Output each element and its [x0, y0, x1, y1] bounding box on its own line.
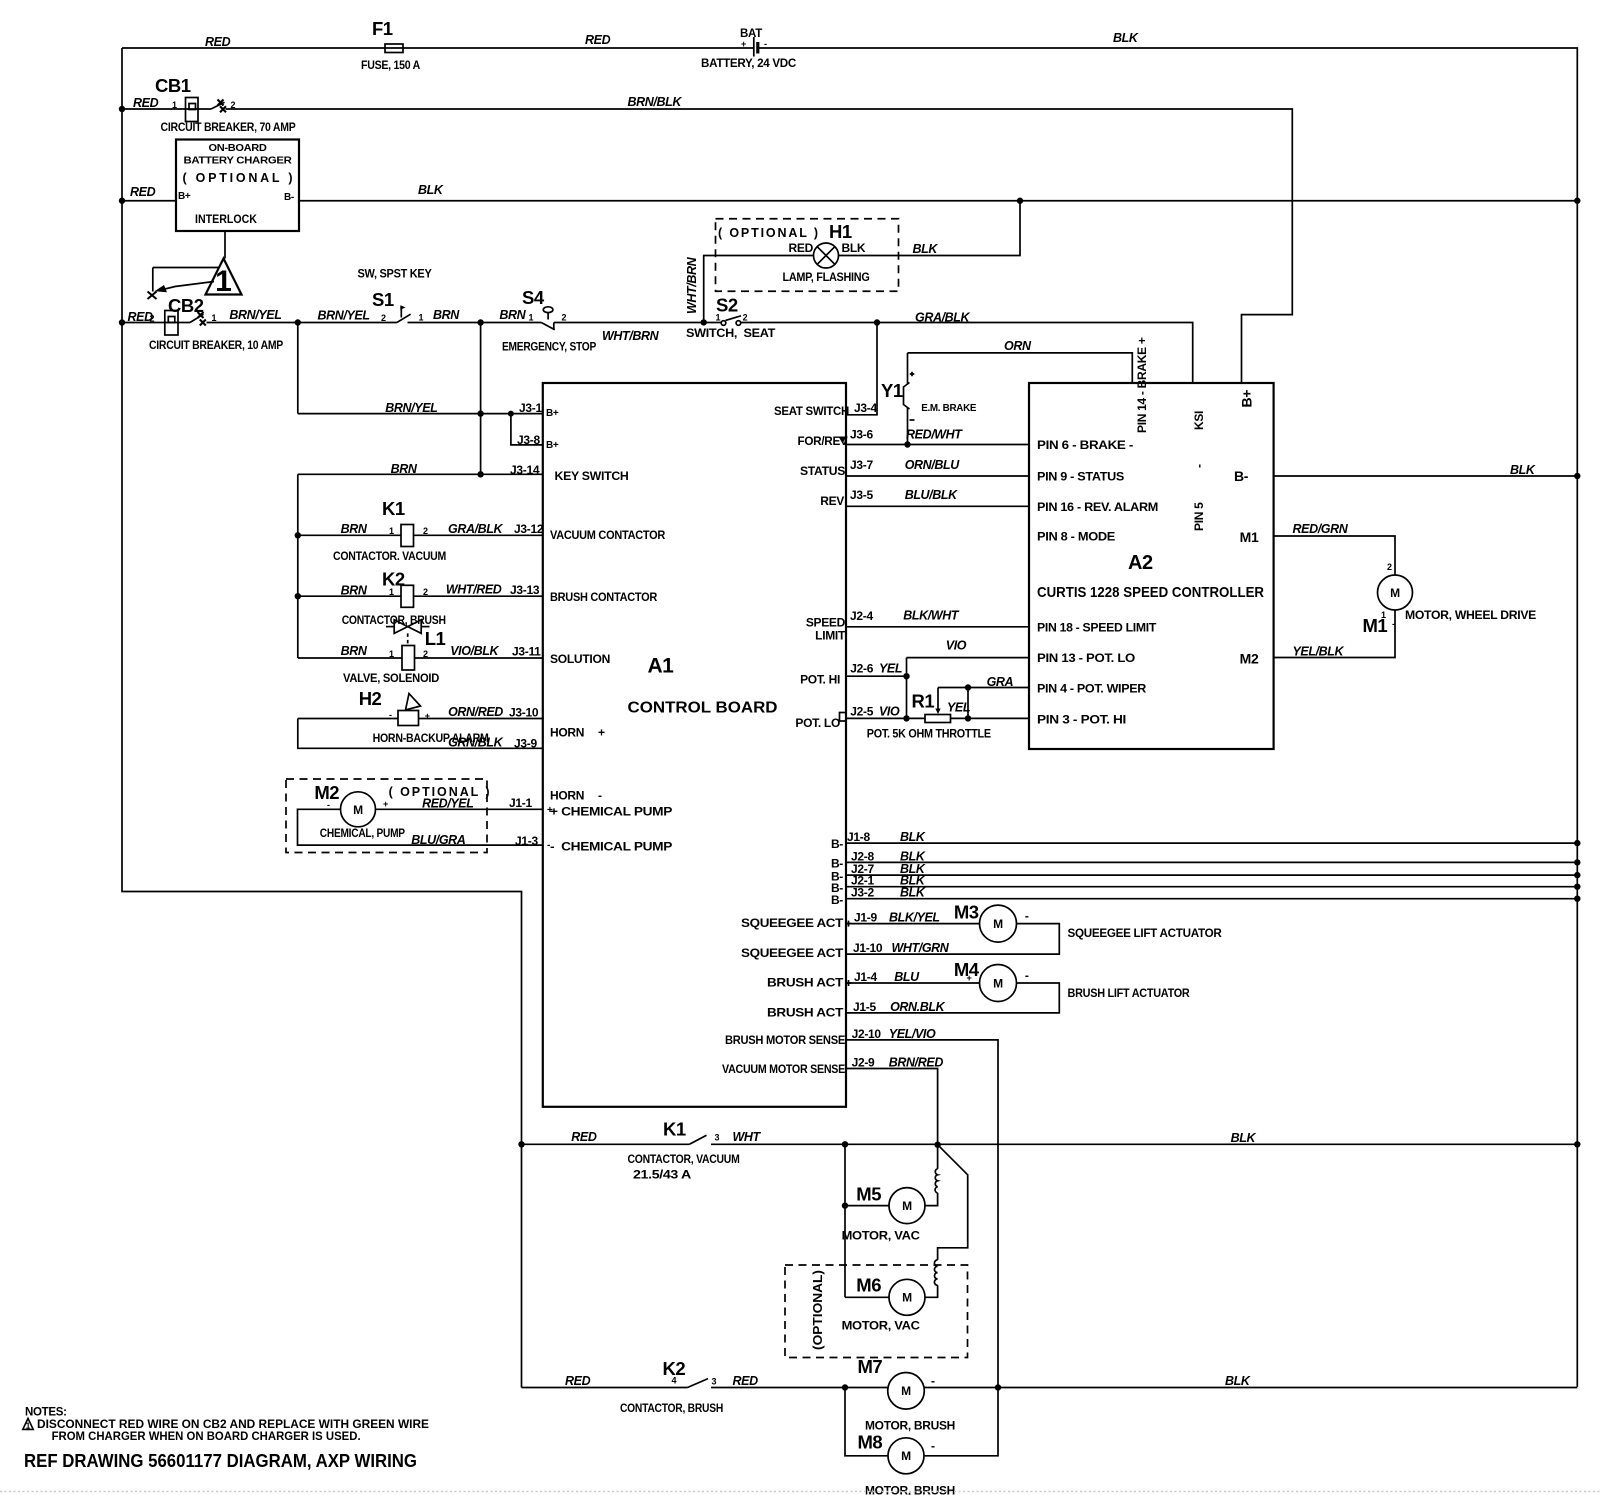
svg-text:VIO: VIO — [879, 705, 900, 719]
svg-text:A2: A2 — [1128, 552, 1153, 574]
switch S1 key SPST — [358, 267, 432, 324]
svg-text:BRN/YEL: BRN/YEL — [318, 309, 370, 323]
node B- right edge — [1574, 473, 1580, 479]
svg-text:NOTES:: NOTES: — [25, 1407, 67, 1419]
note 1 warning triangle with leader — [148, 259, 242, 300]
wire ORN brake plus — [908, 339, 1133, 383]
svg-text:1: 1 — [1381, 610, 1386, 620]
svg-text:- CHEMICAL PUMP: - CHEMICAL PUMP — [550, 840, 672, 854]
label J3-1 — [519, 401, 559, 419]
svg-text:J2-9: J2-9 — [852, 1056, 875, 1070]
wire vac thermal link — [938, 1145, 968, 1260]
svg-text:FROM CHARGER WHEN ON BOARD CHA: FROM CHARGER WHEN ON BOARD CHARGER IS US… — [52, 1431, 361, 1443]
svg-text:-: - — [1025, 909, 1029, 923]
svg-text:FUSE, 150 A: FUSE, 150 A — [361, 58, 421, 72]
svg-text:BLK: BLK — [900, 830, 926, 844]
svg-text:J3-13: J3-13 — [510, 583, 540, 597]
svg-text:K1: K1 — [382, 498, 405, 519]
svg-text:J3-7: J3-7 — [850, 458, 873, 472]
svg-text:BRN: BRN — [341, 522, 368, 536]
svg-text:BLK/WHT: BLK/WHT — [903, 609, 960, 623]
svg-text:-: - — [327, 800, 330, 810]
svg-text:YEL: YEL — [947, 701, 970, 715]
svg-text:( OPTIONAL ): ( OPTIONAL ) — [183, 171, 293, 185]
svg-text:BRN: BRN — [433, 308, 460, 322]
wire GRA/BLK S2 to controller KSI — [741, 311, 1193, 384]
svg-text:1: 1 — [212, 313, 217, 323]
svg-text:M8: M8 — [858, 1432, 883, 1453]
svg-text:BRUSH ACT: BRUSH ACT — [767, 976, 844, 990]
svg-text:PIN 18 - SPEED LIMIT: PIN 18 - SPEED LIMIT — [1037, 620, 1157, 634]
svg-text:J1-8: J1-8 — [847, 830, 870, 844]
svg-text:1: 1 — [389, 587, 394, 597]
svg-text:J3-2: J3-2 — [851, 886, 874, 900]
svg-text:4: 4 — [672, 1376, 677, 1386]
svg-text:SPEED: SPEED — [806, 616, 846, 630]
svg-text:RED: RED — [565, 1374, 591, 1388]
svg-text:B+: B+ — [546, 408, 559, 419]
svg-text:( OPTIONAL ): ( OPTIONAL ) — [718, 226, 818, 240]
svg-text:BLK/YEL: BLK/YEL — [889, 911, 940, 925]
svg-text:J3-12: J3-12 — [514, 522, 544, 536]
wire S4 to S2 — [554, 322, 722, 324]
wire YEL/VIO J2-10 brush motor sense — [846, 1027, 998, 1388]
svg-text:B+: B+ — [1239, 390, 1255, 408]
svg-text:B+: B+ — [178, 191, 191, 202]
wire BLK controller B- to right edge — [1274, 463, 1578, 477]
svg-text:CONTACTOR. VACUUM: CONTACTOR. VACUUM — [333, 549, 446, 563]
node K1 line right edge — [1574, 1141, 1580, 1147]
svg-text:VACUUM CONTACTOR: VACUUM CONTACTOR — [550, 528, 666, 542]
svg-text:BRN: BRN — [341, 584, 368, 598]
motor M7 brush — [858, 1356, 956, 1433]
svg-text:RED: RED — [133, 96, 159, 110]
svg-text:KEY SWITCH: KEY SWITCH — [555, 469, 629, 483]
svg-text:CHEMICAL, PUMP: CHEMICAL, PUMP — [320, 826, 405, 840]
svg-text:S1: S1 — [372, 289, 394, 310]
svg-text:HORN: HORN — [550, 789, 584, 803]
svg-text:2: 2 — [423, 649, 428, 659]
node K2 coil tap — [295, 593, 301, 599]
svg-text:R1: R1 — [912, 691, 935, 712]
svg-text:+: + — [383, 799, 388, 809]
svg-text:2: 2 — [743, 313, 748, 323]
battery BAT, 24 VDC — [701, 26, 797, 70]
svg-text:BATTERY, 24 VDC: BATTERY, 24 VDC — [701, 56, 797, 70]
svg-text:GRA/BLK: GRA/BLK — [448, 522, 504, 536]
svg-text:VALVE, SOLENOID: VALVE, SOLENOID — [343, 671, 440, 685]
svg-text:BRUSH MOTOR SENSE: BRUSH MOTOR SENSE — [725, 1033, 845, 1047]
svg-text:FOR/REV: FOR/REV — [798, 434, 848, 448]
svg-text:M1: M1 — [1240, 529, 1259, 545]
svg-text:PIN 13 - POT. LO: PIN 13 - POT. LO — [1037, 651, 1135, 665]
wire BRN/RED J2-9 vacuum motor sense — [846, 1056, 943, 1145]
svg-text:1: 1 — [716, 313, 721, 323]
svg-text:BLK: BLK — [842, 241, 866, 255]
svg-text:RED: RED — [733, 1374, 759, 1388]
svg-text:J3-6: J3-6 — [850, 428, 873, 442]
svg-text:WHT/BRN: WHT/BRN — [602, 329, 660, 343]
svg-text:MOTOR, VAC: MOTOR, VAC — [842, 1229, 921, 1243]
svg-text:WHT/BRN: WHT/BRN — [685, 256, 699, 314]
wire charger interlock drop — [224, 231, 226, 259]
page edge dotted — [0, 1491, 1600, 1493]
svg-text:RED/GRN: RED/GRN — [1293, 522, 1349, 536]
svg-text:BRUSH ACT: BRUSH ACT — [767, 1006, 844, 1020]
contactor K2 contacts, brush — [522, 1358, 889, 1415]
node K1 coil tap — [295, 532, 301, 538]
potentiometer R1 pot 5K ohm throttle — [867, 675, 1029, 741]
horn H2 backup alarm — [298, 688, 543, 750]
svg-text:J1-5: J1-5 — [853, 1000, 876, 1014]
svg-text:J3-14: J3-14 — [510, 463, 540, 477]
svg-text:RED: RED — [205, 35, 231, 49]
battery charger on-board (optional) — [176, 140, 299, 232]
svg-text:-: - — [598, 789, 602, 803]
svg-text:1: 1 — [389, 526, 394, 536]
wire RED top bus from left riser to battery — [122, 33, 753, 49]
node battery negative right edge — [1574, 198, 1580, 204]
node charger B+ tap — [119, 198, 125, 204]
svg-text:HORN: HORN — [550, 726, 584, 740]
wire BLK charger B- to right edge — [299, 183, 1577, 201]
svg-text:ORN/BLU: ORN/BLU — [905, 458, 961, 472]
svg-text:+ CHEMICAL PUMP: + CHEMICAL PUMP — [550, 805, 672, 819]
motor M5 vac — [842, 1145, 938, 1243]
node J2-7 right — [1574, 872, 1580, 878]
node Y1 foot — [904, 441, 910, 447]
svg-text:PIN 5: PIN 5 — [1192, 502, 1206, 531]
svg-text:L1: L1 — [425, 628, 446, 649]
svg-text:M: M — [902, 1291, 912, 1305]
svg-text:1: 1 — [389, 649, 394, 659]
chemical pump M2 (optional) — [286, 779, 553, 853]
svg-text:CONTACTOR, VACUUM: CONTACTOR, VACUUM — [628, 1152, 740, 1166]
svg-text:M: M — [993, 976, 1003, 990]
svg-text:-: - — [1025, 969, 1029, 983]
svg-text:CURTIS 1228 SPEED CONTROLLER: CURTIS 1228 SPEED CONTROLLER — [1037, 584, 1264, 601]
svg-text:M: M — [901, 1384, 911, 1398]
svg-text:BLK: BLK — [1225, 1374, 1251, 1388]
wire BLK battery negative to right edge and down — [759, 31, 1578, 1387]
svg-text:BLK: BLK — [1510, 463, 1536, 477]
svg-text:POT. LO: POT. LO — [795, 716, 840, 730]
svg-text:J2-6: J2-6 — [850, 662, 873, 676]
wire BRN S1 to S4 — [408, 308, 542, 323]
svg-text:J1-3: J1-3 — [515, 834, 538, 848]
svg-text:2: 2 — [562, 313, 567, 323]
svg-text:1: 1 — [26, 1422, 31, 1431]
svg-text:LAMP, FLASHING: LAMP, FLASHING — [783, 270, 870, 284]
svg-text:M7: M7 — [858, 1356, 883, 1377]
wire J3-8 stub — [511, 414, 543, 445]
svg-text:RED: RED — [130, 185, 156, 199]
wire BLK brush return — [924, 1374, 1577, 1388]
svg-text:VIO/BLK: VIO/BLK — [450, 644, 499, 658]
svg-text:1: 1 — [172, 100, 177, 110]
svg-text:1: 1 — [529, 313, 534, 323]
svg-text:B-: B- — [831, 837, 843, 851]
svg-text:Y1: Y1 — [881, 380, 903, 401]
svg-text:CB1: CB1 — [155, 75, 191, 96]
svg-text:2: 2 — [1387, 562, 1392, 572]
arrow FOR/REV direction marker — [839, 437, 847, 444]
svg-text:BRN/BLK: BRN/BLK — [628, 95, 683, 109]
svg-text:PIN 16 - REV. ALARM: PIN 16 - REV. ALARM — [1037, 500, 1158, 514]
svg-text:RED/YEL: RED/YEL — [422, 797, 473, 811]
svg-text:J3-9: J3-9 — [514, 737, 537, 751]
node K1 feed tap — [518, 1141, 524, 1147]
wire BLK J2-1 — [846, 874, 1577, 888]
svg-text:F1: F1 — [372, 18, 393, 39]
svg-text:BRN/RED: BRN/RED — [889, 1056, 944, 1070]
svg-text:B-: B- — [284, 192, 294, 203]
svg-text:SW, SPST KEY: SW, SPST KEY — [358, 267, 432, 281]
svg-text:BLU: BLU — [894, 970, 920, 984]
node brush sense tie — [995, 1384, 1001, 1390]
svg-text:KSI: KSI — [1192, 411, 1206, 430]
svg-text:A1: A1 — [648, 655, 675, 678]
svg-text:+: + — [598, 726, 605, 740]
squeegee lift actuator M3 — [846, 902, 1223, 956]
svg-text:21.5/43 A: 21.5/43 A — [633, 1168, 692, 1182]
svg-text:GRN/BLK: GRN/BLK — [448, 736, 504, 750]
node J2-6 tap — [903, 673, 909, 679]
node M5 tap — [842, 1202, 848, 1208]
node J1-8 right — [1574, 840, 1580, 846]
node seat switch J3-4 tap — [874, 319, 880, 325]
svg-text:CONTROL BOARD: CONTROL BOARD — [628, 700, 778, 717]
svg-text:-: - — [389, 710, 392, 720]
svg-text:E.M. BRAKE: E.M. BRAKE — [921, 403, 977, 414]
svg-text:BRN: BRN — [391, 462, 418, 476]
node key riser foot — [477, 471, 483, 477]
wire WHT/BRN lamp to seat switch bus — [685, 256, 814, 323]
svg-text:STATUS: STATUS — [800, 464, 845, 478]
wire BLK/WHT J2-4 speed limit — [846, 609, 1029, 627]
svg-text:M5: M5 — [856, 1184, 881, 1205]
svg-text:BRUSH LIFT ACTUATOR: BRUSH LIFT ACTUATOR — [1068, 986, 1191, 1000]
svg-text:1: 1 — [215, 265, 232, 298]
svg-text:-: - — [931, 1374, 935, 1388]
svg-text:VACUUM MOTOR SENSE: VACUUM MOTOR SENSE — [722, 1062, 845, 1076]
svg-text:LIMIT: LIMIT — [815, 629, 846, 643]
svg-text:REF DRAWING 56601177 DIAGRAM,: REF DRAWING 56601177 DIAGRAM, AXP WIRING — [24, 1451, 417, 1471]
node pot left — [903, 715, 909, 721]
lamp H1 flashing (optional) — [716, 219, 899, 292]
svg-text:3: 3 — [712, 1377, 717, 1387]
svg-text:J1-4: J1-4 — [854, 970, 877, 984]
svg-text:M: M — [993, 917, 1003, 931]
svg-text:BRN: BRN — [341, 644, 368, 658]
wire VIO pot lo — [907, 639, 1030, 658]
circuit breaker CB2, 10 amp — [122, 295, 283, 352]
svg-text:PIN 3 - POT. HI: PIN 3 - POT. HI — [1037, 713, 1126, 727]
svg-text:M3: M3 — [954, 902, 979, 923]
em brake Y1 — [881, 353, 977, 445]
svg-text:MOTOR, BRUSH: MOTOR, BRUSH — [865, 1484, 955, 1495]
node J2-8 right — [1574, 859, 1580, 865]
wire YEL/BLK M2 out — [1274, 610, 1395, 659]
svg-text:WHT/RED: WHT/RED — [446, 583, 502, 597]
wire contactor coil bus — [297, 474, 299, 658]
node pot right — [965, 715, 971, 721]
switch S2 seat — [686, 295, 776, 341]
svg-text:+: + — [967, 973, 972, 983]
svg-text:3: 3 — [715, 1133, 720, 1143]
svg-text:PIN 14 - BRAKE +: PIN 14 - BRAKE + — [1135, 337, 1149, 433]
node lamp tap — [701, 319, 707, 325]
svg-text:WHT/GRN: WHT/GRN — [892, 941, 950, 955]
speed controller A2 Curtis 1228 — [1029, 337, 1274, 749]
node J3-1 branch — [295, 319, 301, 325]
svg-text:WHT: WHT — [733, 1130, 762, 1144]
svg-text:ORN/RED: ORN/RED — [448, 705, 503, 719]
svg-text:2: 2 — [423, 526, 428, 536]
svg-text:POT. 5K OHM THROTTLE: POT. 5K OHM THROTTLE — [867, 727, 991, 741]
svg-text:-: - — [1192, 464, 1206, 468]
wire BRN key switch J3-14 — [298, 462, 543, 476]
svg-text:BLU/GRA: BLU/GRA — [411, 833, 466, 847]
svg-text:2: 2 — [381, 313, 386, 323]
label J3-8 — [517, 433, 559, 451]
svg-text:B+: B+ — [546, 440, 559, 451]
wire key switch riser — [480, 323, 482, 475]
svg-text:MOTOR, BRUSH: MOTOR, BRUSH — [865, 1419, 955, 1433]
svg-text:M: M — [901, 1449, 911, 1463]
svg-text:J3-8: J3-8 — [517, 433, 540, 447]
svg-text:H1: H1 — [829, 221, 852, 242]
brush lift actuator M4 — [846, 959, 1191, 1014]
svg-text:J2-5: J2-5 — [850, 705, 873, 719]
svg-text:2: 2 — [150, 314, 155, 324]
svg-text:H2: H2 — [359, 688, 382, 709]
svg-text:SQUEEGEE ACT: SQUEEGEE ACT — [741, 916, 844, 930]
node CB1 tap — [119, 106, 125, 112]
svg-text:-: - — [931, 1439, 935, 1453]
svg-text:B-: B- — [831, 893, 843, 907]
svg-text:VIO: VIO — [946, 639, 967, 653]
svg-text:POT. HI: POT. HI — [800, 673, 840, 687]
svg-text:B-: B- — [831, 857, 843, 871]
wire BLK J3-2 — [846, 886, 1577, 900]
svg-text:ORN.BLK: ORN.BLK — [890, 1000, 946, 1014]
svg-text:CIRCUIT BREAKER, 10 AMP: CIRCUIT BREAKER, 10 AMP — [149, 338, 283, 352]
wire BRN/YEL CB2 to S1 — [207, 308, 397, 323]
svg-text:PIN 4 - POT. WIPER: PIN 4 - POT. WIPER — [1037, 682, 1147, 696]
node vac motor branch — [842, 1141, 848, 1147]
wire pot riser — [906, 658, 908, 719]
wire YEL J2-6 pot hi — [846, 662, 907, 677]
wire RED left power riser — [122, 48, 522, 1388]
node J3-8 tap — [508, 411, 514, 417]
notes — [23, 1407, 430, 1471]
svg-text:CIRCUIT BREAKER, 70 AMP: CIRCUIT BREAKER, 70 AMP — [161, 120, 296, 134]
switch S4 emergency stop — [502, 287, 660, 354]
contactor K2 coil (brush) — [298, 569, 543, 628]
svg-text:SQUEEGEE ACT: SQUEEGEE ACT — [741, 946, 844, 960]
svg-text:EMERGENCY, STOP: EMERGENCY, STOP — [502, 340, 596, 354]
contactor K1 contacts, vacuum 21.5/43 A — [522, 1119, 1578, 1182]
svg-text:J2-4: J2-4 — [850, 609, 873, 623]
svg-text:M2: M2 — [1240, 651, 1259, 667]
node lamp branch — [1017, 198, 1023, 204]
wire BLU/BLK J3-5 rev — [846, 488, 1029, 506]
wire vac motor feed riser — [844, 1144, 846, 1297]
svg-text:CB2: CB2 — [168, 295, 204, 316]
wire BRN/BLK CB1 to controller B+ — [226, 95, 1293, 383]
svg-text:GRA/BLK: GRA/BLK — [915, 311, 971, 325]
svg-text:BLU/BLK: BLU/BLK — [905, 488, 958, 502]
wire BLK J2-7 — [846, 862, 1577, 876]
svg-text:BRN/YEL: BRN/YEL — [385, 401, 437, 415]
motor M8 brush — [845, 1388, 998, 1495]
svg-text:RED: RED — [585, 33, 611, 47]
control board A1 — [543, 383, 849, 1107]
svg-text:B-: B- — [1234, 468, 1249, 484]
wire ORN/BLU J3-7 status — [846, 458, 1029, 476]
svg-text:J3-11: J3-11 — [512, 645, 541, 659]
svg-text:BLK: BLK — [900, 886, 926, 900]
fuse F1, 150 A — [361, 18, 421, 72]
svg-text:J3-1: J3-1 — [519, 401, 542, 415]
svg-text:YEL: YEL — [879, 662, 902, 676]
svg-text:BRN: BRN — [499, 308, 526, 322]
svg-text:ON-BOARD: ON-BOARD — [209, 143, 267, 154]
svg-text:BLK: BLK — [1231, 1131, 1257, 1145]
svg-text:SEAT SWITCH: SEAT SWITCH — [774, 404, 849, 418]
wire J3-4 seat switch stub — [846, 323, 877, 416]
svg-text:1: 1 — [419, 313, 424, 323]
svg-text:RED: RED — [789, 241, 814, 255]
motor M6 vac (optional) — [785, 1260, 968, 1358]
svg-text:BLK: BLK — [1113, 31, 1139, 45]
svg-text:INTERLOCK: INTERLOCK — [195, 214, 258, 226]
svg-text:MOTOR, VAC: MOTOR, VAC — [842, 1319, 921, 1333]
svg-text:SOLUTION: SOLUTION — [550, 652, 610, 666]
svg-text:K1: K1 — [663, 1119, 686, 1140]
svg-text:S4: S4 — [522, 287, 545, 308]
svg-text:BLK: BLK — [913, 242, 939, 256]
svg-text:+: + — [425, 711, 430, 721]
svg-text:+: + — [741, 39, 746, 49]
svg-text:GRA: GRA — [987, 675, 1014, 689]
svg-text:J1-9: J1-9 — [854, 911, 877, 925]
svg-text:BLK: BLK — [418, 183, 444, 197]
node M7 tap — [842, 1384, 848, 1390]
svg-text:BAT: BAT — [740, 26, 763, 40]
svg-text:J1-1: J1-1 — [509, 796, 532, 810]
svg-text:BATTERY CHARGER: BATTERY CHARGER — [184, 156, 293, 167]
svg-text:CONTACTOR, BRUSH: CONTACTOR, BRUSH — [620, 1401, 723, 1415]
svg-text:(OPTIONAL): (OPTIONAL) — [810, 1270, 825, 1350]
svg-text:RED: RED — [571, 1130, 597, 1144]
svg-text:DISCONNECT RED WIRE ON CB2 AND: DISCONNECT RED WIRE ON CB2 AND REPLACE W… — [37, 1419, 429, 1431]
wire BLK J1-8 — [846, 830, 1577, 844]
node J2-1 right — [1574, 884, 1580, 890]
svg-text:J3-4: J3-4 — [854, 401, 877, 415]
node pot wiper tie — [965, 684, 971, 690]
motor M1 wheel drive — [1363, 575, 1537, 636]
svg-text:2: 2 — [423, 587, 428, 597]
svg-text:J3-10: J3-10 — [509, 706, 539, 720]
svg-text:RED/WHT: RED/WHT — [906, 428, 963, 442]
wire BRN/YEL to J3-1 B+ — [298, 323, 543, 416]
wire RED to charger B+ — [122, 185, 176, 201]
wire BLK J2-8 — [846, 849, 1577, 863]
svg-text:PIN 9 - STATUS: PIN 9 - STATUS — [1037, 470, 1124, 484]
svg-text:M: M — [902, 1199, 912, 1213]
